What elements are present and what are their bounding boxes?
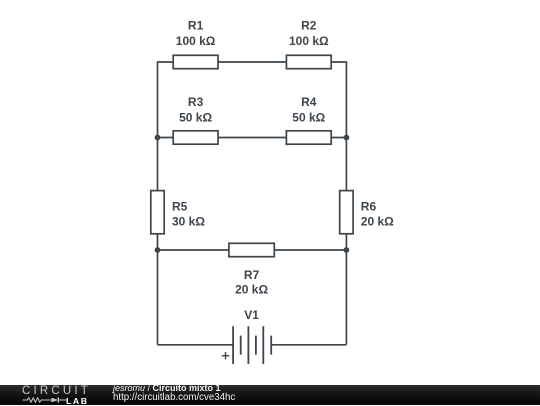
- resistor R3 body: [173, 131, 218, 144]
- svg-text:R6: R6: [361, 200, 377, 214]
- svg-text:R3: R3: [188, 95, 204, 109]
- node junction right R7 row: [344, 247, 350, 253]
- svg-text:100 kΩ: 100 kΩ: [289, 34, 329, 48]
- svg-text:R7: R7: [244, 268, 260, 282]
- svg-text:20 kΩ: 20 kΩ: [361, 214, 394, 228]
- svg-text:20 kΩ: 20 kΩ: [235, 282, 268, 296]
- resistor R6 body: [340, 191, 353, 234]
- svg-text:R4: R4: [301, 95, 317, 109]
- svg-text:30 kΩ: 30 kΩ: [172, 214, 205, 228]
- CircuitLab logo LAB: [66, 396, 89, 406]
- svg-text:50 kΩ: 50 kΩ: [292, 110, 325, 124]
- resistor R1 body: [173, 55, 218, 68]
- CircuitLab logo resistor-diode squiggle: [22, 395, 68, 405]
- wire bottom left to battery: [158, 344, 234, 346]
- svg-text:50 kΩ: 50 kΩ: [179, 110, 212, 124]
- wire outer loop (left rail, top rail, right rail): [158, 62, 347, 345]
- battery V1 plus sign: [222, 352, 229, 359]
- resistor R7 body: [229, 243, 274, 256]
- svg-text:R2: R2: [301, 19, 317, 33]
- footer author / title line: [113, 384, 221, 393]
- node junction right R4 row: [344, 135, 350, 141]
- wire R3-R4 row: [158, 137, 347, 139]
- node junction left R7 row: [155, 247, 161, 253]
- resistor R5 body: [151, 191, 164, 234]
- svg-text:V1: V1: [244, 308, 259, 322]
- wire R7 row: [158, 249, 347, 251]
- svg-text:100 kΩ: 100 kΩ: [176, 34, 216, 48]
- resistor R2 body: [286, 55, 331, 68]
- CircuitLab logo wordmark CIRCUIT: [22, 385, 91, 397]
- svg-text:R5: R5: [172, 200, 188, 214]
- footer url line: [113, 393, 235, 402]
- resistor R4 body: [286, 131, 331, 144]
- footer bar: [0, 385, 540, 405]
- wire battery to bottom right: [271, 344, 346, 346]
- node junction left R3 row: [155, 135, 161, 141]
- battery V1 plates: [233, 326, 271, 364]
- svg-text:R1: R1: [188, 19, 204, 33]
